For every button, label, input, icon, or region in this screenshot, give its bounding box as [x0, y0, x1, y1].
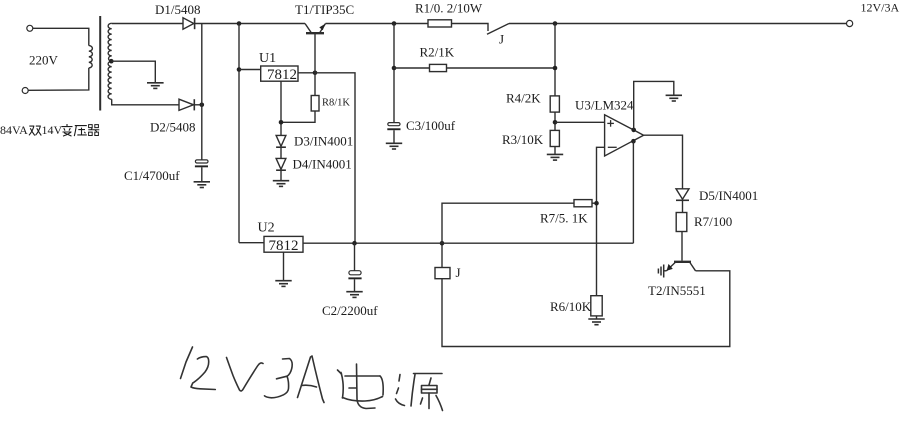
wire to U1 input: [239, 69, 260, 71]
wire rectifier vertical to C1: [201, 24, 203, 160]
svg-text:7812: 7812: [269, 238, 299, 254]
wire feedback R7 branch: [442, 203, 574, 243]
wire op-amp minus input: [597, 147, 605, 295]
diode D4: [276, 158, 286, 170]
wire rail to R4: [554, 24, 556, 96]
node rectifier output: [237, 21, 242, 26]
capacitor C3: [387, 123, 400, 144]
handwriting 12V3A: [181, 347, 443, 411]
ground R6: [588, 319, 604, 325]
capacitor C1: [195, 160, 208, 182]
resistor R4: [550, 96, 559, 112]
node D2 junction: [200, 103, 205, 108]
wire D4 to ground: [280, 170, 282, 181]
svg-text:C2/2200uf: C2/2200uf: [322, 303, 378, 318]
svg-text:U2: U2: [258, 221, 275, 236]
wire R6 to ground: [596, 316, 598, 319]
svg-text:U3/LM324: U3/LM324: [575, 98, 634, 113]
node R2 right: [553, 66, 558, 71]
wire R8 bottom to D3 junction: [281, 111, 315, 122]
svg-text:R7/5. 1K: R7/5. 1K: [540, 211, 588, 226]
wire primary top: [33, 28, 89, 45]
ground R3: [547, 154, 563, 160]
svg-text:220V: 220V: [29, 53, 59, 68]
wire center tap to ground: [111, 61, 155, 83]
svg-text:R1/0. 2/10W: R1/0. 2/10W: [415, 1, 483, 16]
node D3 junction: [279, 120, 284, 125]
transformer primary winding: [89, 46, 93, 68]
diode D5: [676, 189, 689, 201]
wire secondary bottom to D2: [112, 99, 179, 105]
wire output rail: [303, 242, 633, 244]
wire R2 right: [447, 67, 556, 69]
resistor R7/100: [676, 213, 687, 232]
ground C3: [386, 143, 402, 149]
wire U1 common pin: [280, 81, 282, 136]
svg-text:D3/IN4001: D3/IN4001: [294, 134, 353, 149]
node U1 output: [313, 71, 318, 76]
wire divider to op-amp: [555, 121, 605, 123]
resistor R2: [430, 64, 447, 71]
svg-text:R8/1K: R8/1K: [322, 98, 350, 109]
wire T2 collector to relay loop: [442, 271, 730, 347]
wire D2 to C1 vertical: [194, 104, 202, 106]
wire D1 to T1: [195, 23, 305, 25]
node op-amp V+ pin: [631, 139, 636, 144]
wire U1 output to node: [298, 72, 315, 74]
wire relay coil to rail: [441, 243, 443, 267]
wire op-amp to ground: [634, 81, 674, 129]
relay contact J blade: [487, 24, 509, 35]
handwritten 源: [399, 375, 400, 382]
ground C1: [194, 182, 210, 188]
ground T2 emitter sideways: [658, 265, 666, 278]
diode D2: [179, 99, 194, 110]
transformer secondary winding upper: [108, 23, 112, 61]
handwritten 1: [181, 347, 193, 379]
node center tap: [109, 59, 114, 64]
ground D4: [273, 181, 289, 187]
wire R7 to T2: [681, 232, 683, 261]
svg-text:J: J: [456, 265, 461, 280]
transformer primary terminal bottom: [22, 88, 28, 94]
wire primary bottom: [28, 68, 89, 90]
svg-text:84VA: 84VA: [0, 123, 28, 137]
wire secondary top to D1: [112, 23, 183, 25]
wire T1 base: [314, 34, 316, 96]
svg-text:R7/100: R7/100: [694, 214, 732, 229]
svg-text:12V/3A: 12V/3A: [861, 1, 900, 15]
wire T1 emitter to R1: [326, 23, 429, 25]
relay coil J: [435, 268, 450, 279]
diode D1: [183, 18, 195, 29]
handwritten 电: [338, 370, 342, 374]
svg-text:T1/TIP35C: T1/TIP35C: [295, 2, 354, 17]
handwritten A: [298, 356, 325, 403]
handwritten 2: [191, 357, 215, 390]
node C3 rail: [392, 21, 397, 26]
svg-text:T2/IN5551: T2/IN5551: [648, 283, 706, 298]
handwritten V: [227, 358, 264, 391]
wire D3 to D4: [280, 147, 282, 158]
svg-text:D4/IN4001: D4/IN4001: [293, 157, 352, 172]
regulator U2: [264, 236, 303, 254]
wire U2 input: [239, 242, 264, 244]
svg-text:7812: 7812: [267, 67, 297, 83]
node R4 rail: [553, 21, 558, 26]
svg-text:D5/IN4001: D5/IN4001: [699, 188, 758, 203]
ground C2: [346, 292, 362, 298]
ground U2: [275, 281, 291, 287]
resistor R7/5.1K: [574, 200, 592, 207]
glyph 压: [74, 126, 87, 137]
capacitor C2: [348, 243, 361, 292]
transformer core: [99, 16, 101, 111]
svg-text:14V: 14V: [42, 123, 63, 137]
node relay rail: [440, 241, 445, 246]
wire rail to C3: [393, 24, 395, 123]
wire R3 to ground: [554, 147, 556, 155]
svg-text:R4/2K: R4/2K: [506, 91, 541, 106]
transformer secondary winding lower: [108, 61, 112, 99]
svg-text:U1: U1: [259, 51, 276, 66]
output terminal: [847, 20, 853, 26]
wire R1 to contact: [452, 24, 489, 32]
wire U1 output to C2 branch: [315, 73, 355, 243]
wire op-amp output: [644, 135, 683, 189]
diode D3: [276, 135, 286, 147]
resistor R1: [428, 20, 452, 27]
node U1 input: [237, 67, 242, 72]
svg-text:C1/4700uf: C1/4700uf: [124, 168, 180, 183]
svg-text:D2/5408: D2/5408: [150, 120, 196, 135]
glyph 变: [62, 124, 73, 136]
node divider: [553, 120, 558, 125]
ground op-amp: [666, 95, 682, 101]
node R2 left: [392, 66, 397, 71]
wire U2 common: [283, 252, 285, 281]
svg-text:D1/5408: D1/5408: [155, 2, 201, 17]
node C2 rail: [352, 241, 357, 246]
wire R4 to R3: [554, 112, 556, 130]
ground center tap: [147, 83, 164, 89]
wire R2 left: [394, 67, 430, 69]
svg-text:C3/100uf: C3/100uf: [406, 118, 456, 133]
regulator U1: [261, 66, 298, 83]
svg-text:J: J: [499, 32, 504, 47]
svg-text:R6/10K: R6/10K: [550, 299, 592, 314]
svg-text:R3/10K: R3/10K: [502, 132, 544, 147]
transistor T2: [667, 262, 696, 271]
wire op-amp supply to rail: [632, 141, 634, 243]
handwritten 3: [277, 359, 293, 379]
resistor R6: [591, 296, 602, 316]
node feedback: [592, 202, 597, 204]
op-amp U3: [605, 115, 644, 156]
glyph 器: [88, 125, 99, 136]
resistor R8: [311, 96, 319, 112]
node op-amp V- pin: [631, 128, 636, 133]
wire rectifier feed vertical: [238, 24, 240, 243]
transistor T1: [305, 24, 326, 34]
transformer primary terminal top: [27, 25, 33, 31]
wire D5 to R7: [682, 200, 684, 212]
svg-text:R2/1K: R2/1K: [420, 45, 455, 60]
resistor R3: [550, 130, 559, 146]
wire contact to output: [509, 23, 847, 25]
glyph 双: [29, 126, 41, 135]
